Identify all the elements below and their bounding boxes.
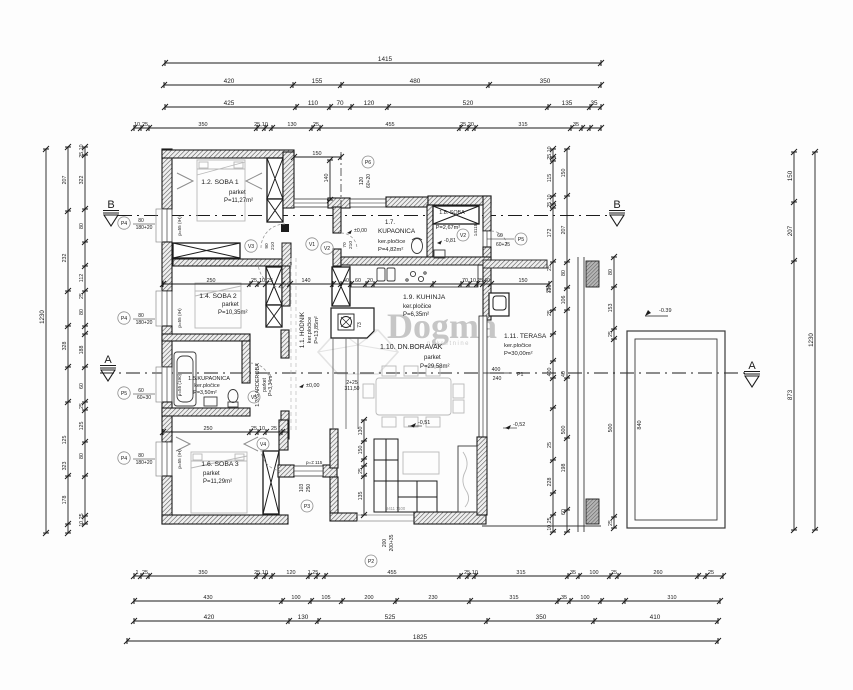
svg-text:1415: 1415 xyxy=(378,56,393,63)
svg-text:1.10. DN.BORAVAK: 1.10. DN.BORAVAK xyxy=(380,344,443,351)
svg-text:V1: V1 xyxy=(309,242,315,248)
svg-text:315: 315 xyxy=(509,595,518,601)
svg-text:1230: 1230 xyxy=(808,333,815,347)
window soba1 left xyxy=(162,209,172,242)
svg-text:25: 25 xyxy=(546,287,552,293)
room label 1.10 DN.BORAVAK xyxy=(380,344,450,370)
svg-text:40: 40 xyxy=(561,371,567,377)
svg-text:80: 80 xyxy=(138,218,144,224)
svg-text:P=29,58m²: P=29,58m² xyxy=(420,364,450,370)
wall soba3 east upper xyxy=(279,420,288,450)
svg-text:315: 315 xyxy=(516,570,525,576)
svg-text:150: 150 xyxy=(358,446,364,455)
internal dim soba3 xyxy=(160,426,288,435)
svg-text:1825: 1825 xyxy=(413,634,428,641)
wall kitchen east xyxy=(483,265,491,320)
svg-text:V4: V4 xyxy=(260,442,266,448)
svg-text:110: 110 xyxy=(308,100,319,107)
svg-text:1230: 1230 xyxy=(39,310,46,324)
dining table xyxy=(363,366,464,427)
svg-text:198: 198 xyxy=(561,464,567,473)
glass wall living east xyxy=(479,316,487,437)
svg-text:500: 500 xyxy=(561,426,567,435)
curtain chevron soba1 right xyxy=(246,173,262,189)
svg-text:240: 240 xyxy=(493,376,502,382)
svg-text:130: 130 xyxy=(298,614,309,621)
svg-text:200: 200 xyxy=(364,595,373,601)
svg-text:480: 480 xyxy=(410,78,421,85)
svg-text:420: 420 xyxy=(224,78,235,85)
svg-text:200+35: 200+35 xyxy=(389,534,395,551)
svg-text:P=11,27m²: P=11,27m² xyxy=(224,198,253,204)
svg-text:parket: parket xyxy=(203,471,220,477)
svg-text:311,50: 311,50 xyxy=(345,386,360,392)
label P1 terrace xyxy=(483,367,523,382)
svg-text:70: 70 xyxy=(342,242,348,248)
svg-text:153: 153 xyxy=(608,304,614,313)
svg-text:parket: parket xyxy=(424,355,441,361)
svg-text:A: A xyxy=(104,354,112,366)
svg-text:±0,00: ±0,00 xyxy=(354,228,367,234)
svg-text:25: 25 xyxy=(142,122,148,128)
sink kupaonica 1.5 xyxy=(204,397,217,406)
outer wall top room18 xyxy=(428,196,491,205)
dim chain x614 pool xyxy=(608,254,617,531)
level mark hodnik top xyxy=(347,228,367,234)
svg-text:ker.pločice: ker.pločice xyxy=(307,317,313,343)
svg-text:25: 25 xyxy=(608,520,614,526)
wall top mid pier xyxy=(328,198,350,208)
svg-text:40: 40 xyxy=(343,278,349,284)
door arc kupaonica 1.5 xyxy=(250,363,270,383)
svg-text:210: 210 xyxy=(348,241,354,249)
svg-text:112: 112 xyxy=(79,274,85,282)
level mark hodnik xyxy=(299,383,319,389)
wall corridor east upper xyxy=(330,429,338,468)
svg-text:25: 25 xyxy=(611,570,617,576)
svg-text:25,10: 25,10 xyxy=(464,570,478,576)
door circle V2 right xyxy=(457,229,469,241)
wall pier kitchen west xyxy=(332,267,350,306)
curtain chevron soba1 left xyxy=(177,173,193,189)
svg-text:525: 525 xyxy=(385,614,396,621)
room label 1.8 xyxy=(436,210,465,231)
svg-text:p=55 (IH): p=55 (IH) xyxy=(177,216,182,236)
bathtub kupaonica 1.5 xyxy=(174,352,196,406)
svg-text:25: 25 xyxy=(547,310,553,316)
dim 140 vertical xyxy=(324,157,333,203)
svg-text:70: 70 xyxy=(462,278,468,284)
svg-text:178: 178 xyxy=(62,496,68,505)
svg-text:25,10: 25,10 xyxy=(254,122,268,128)
svg-text:25: 25 xyxy=(251,278,257,284)
svg-text:1.7.: 1.7. xyxy=(385,220,395,226)
door label P2 entrance xyxy=(365,534,395,567)
wall 1.8 east lower xyxy=(483,247,491,260)
svg-text:10: 10 xyxy=(259,278,265,284)
svg-text:135: 135 xyxy=(358,492,364,501)
wall 1.8 east upper xyxy=(483,196,491,231)
svg-text:60: 60 xyxy=(497,233,503,239)
svg-text:60+30: 60+30 xyxy=(137,395,151,401)
svg-text:25: 25 xyxy=(708,570,714,576)
svg-text:250: 250 xyxy=(204,426,213,432)
svg-text:1.1. HODNIK: 1.1. HODNIK xyxy=(299,311,306,348)
wall garderoba east upper xyxy=(281,330,289,358)
wall between 1.7 and 1.8 xyxy=(427,205,433,257)
door label P3 xyxy=(299,484,313,512)
dim chain x576 xyxy=(561,146,570,535)
curtain chevron soba3 right xyxy=(244,437,258,451)
outer wall left seg1 xyxy=(162,149,172,209)
svg-text:P=30,00m²: P=30,00m² xyxy=(504,351,533,357)
svg-text:parket: parket xyxy=(229,190,246,196)
left window label P4 2 xyxy=(118,312,155,326)
svg-text:80: 80 xyxy=(138,453,144,459)
door circle V4 xyxy=(257,438,269,450)
svg-text:172: 172 xyxy=(547,229,553,238)
svg-text:1.2. SOBA 1: 1.2. SOBA 1 xyxy=(201,179,239,186)
svg-text:10: 10 xyxy=(259,426,265,432)
svg-text:188: 188 xyxy=(79,346,85,355)
svg-text:60: 60 xyxy=(561,509,567,515)
section marker B left xyxy=(103,199,119,226)
door circle V5 xyxy=(248,391,260,403)
wall top right seg xyxy=(386,197,428,207)
svg-text:250: 250 xyxy=(207,278,216,284)
svg-text:P=3,50m²: P=3,50m² xyxy=(193,390,217,396)
wall south of 1.7 1.8 xyxy=(341,257,491,265)
wall south entrance xyxy=(330,513,357,521)
svg-text:25: 25 xyxy=(79,403,85,409)
svg-text:14118: 14118 xyxy=(473,223,478,236)
svg-text:P4: P4 xyxy=(121,316,127,322)
internal dim line main xyxy=(160,278,552,287)
svg-text:±0,00: ±0,00 xyxy=(306,383,319,389)
window soba3 left xyxy=(162,442,172,476)
room label 1.9 KUHINJA xyxy=(403,294,446,318)
dim 150 window axis xyxy=(291,151,344,160)
svg-text:60+20: 60+20 xyxy=(366,174,372,188)
svg-text:230: 230 xyxy=(428,595,437,601)
svg-text:350: 350 xyxy=(536,614,547,621)
wall pier soba2 east lower xyxy=(266,305,282,327)
svg-text:155: 155 xyxy=(312,78,323,85)
svg-text:9411 1100: 9411 1100 xyxy=(386,506,406,511)
svg-text:25: 25 xyxy=(79,293,85,299)
svg-text:315: 315 xyxy=(518,122,527,128)
svg-text:125: 125 xyxy=(79,422,85,431)
right dim chain 873 xyxy=(787,149,797,533)
window sill projection 1 xyxy=(156,209,162,242)
outer wall left seg3 xyxy=(162,326,172,367)
svg-text:80: 80 xyxy=(79,223,85,229)
wc kupaonica 1.7 xyxy=(412,238,423,254)
svg-text:125: 125 xyxy=(62,436,68,445)
svg-text:105: 105 xyxy=(321,595,330,601)
wall pier soba1 east lower xyxy=(267,199,283,222)
axis line window xyxy=(340,152,342,207)
svg-text:25: 25 xyxy=(477,278,483,284)
svg-text:1: 1 xyxy=(135,570,138,576)
door vetrobran xyxy=(294,466,323,476)
svg-text:35: 35 xyxy=(561,595,567,601)
svg-text:P=4,82m²: P=4,82m² xyxy=(378,247,403,253)
pool outer rectangle xyxy=(627,331,725,528)
window sill projection 4 xyxy=(156,442,162,476)
room label 1.3 rotated xyxy=(255,363,274,407)
door post soba1 xyxy=(281,224,289,232)
svg-text:A: A xyxy=(748,360,756,372)
curtain chevron soba3 left xyxy=(176,437,190,451)
svg-text:207: 207 xyxy=(787,225,794,236)
outer wall top soba1 xyxy=(162,150,294,158)
svg-text:1.9. KUHINJA: 1.9. KUHINJA xyxy=(403,294,446,301)
svg-text:35: 35 xyxy=(573,122,579,128)
svg-text:10: 10 xyxy=(134,122,140,128)
top dim row 4 xyxy=(131,122,604,131)
svg-text:425: 425 xyxy=(224,100,235,107)
closet band soba1 xyxy=(173,243,240,258)
svg-text:35: 35 xyxy=(590,100,598,107)
section line B-B xyxy=(118,215,608,217)
svg-text:60+25: 60+25 xyxy=(496,242,510,248)
door circle V1 xyxy=(306,238,318,250)
svg-text:210: 210 xyxy=(270,242,276,250)
left dim total 1230 xyxy=(39,146,49,536)
svg-text:parket: parket xyxy=(222,302,239,308)
svg-text:35: 35 xyxy=(570,570,576,576)
wall 1.7 west upper xyxy=(333,207,341,233)
svg-text:20: 20 xyxy=(367,278,373,284)
door arc soba1 xyxy=(261,224,285,248)
svg-text:150: 150 xyxy=(787,170,794,181)
wall kupaonica15 south xyxy=(162,408,250,416)
svg-text:25: 25 xyxy=(267,278,273,284)
svg-text:V5: V5 xyxy=(251,395,257,401)
svg-text:1,25: 1,25 xyxy=(308,570,319,576)
svg-text:250: 250 xyxy=(306,484,312,493)
wall kupaonica15 north xyxy=(162,334,250,341)
left window label P4 4 xyxy=(118,452,155,466)
svg-text:322: 322 xyxy=(79,176,85,185)
svg-text:P5: P5 xyxy=(518,237,525,243)
svg-text:455: 455 xyxy=(385,122,394,128)
svg-text:260: 260 xyxy=(653,570,662,576)
wall 1.7 west lower xyxy=(333,249,341,266)
window sill projection 2 xyxy=(156,291,162,326)
pier terrace south xyxy=(586,499,599,524)
svg-text:25: 25 xyxy=(608,331,614,337)
svg-text:90: 90 xyxy=(264,243,270,249)
svg-text:70: 70 xyxy=(336,100,344,107)
door arc room 1.8 xyxy=(491,231,507,247)
svg-text:150: 150 xyxy=(561,169,567,178)
svg-text:10,25: 10,25 xyxy=(79,513,85,526)
svg-text:25: 25 xyxy=(313,122,319,128)
svg-text:V3: V3 xyxy=(248,244,254,250)
hodnik-living open boundary xyxy=(333,338,358,429)
terrace east edge lines xyxy=(578,257,584,532)
kitchen counter xyxy=(350,265,478,287)
terrace north bar xyxy=(483,260,547,268)
svg-text:73: 73 xyxy=(357,322,363,328)
wall pier soba1 east upper xyxy=(267,158,283,199)
door dims 1.7 rotated xyxy=(342,241,354,249)
room label 1.5 KUPAONICA xyxy=(188,376,230,396)
watermark Dogma logo xyxy=(387,306,497,347)
bed soba3 xyxy=(191,452,247,513)
outer wall soba3 south xyxy=(162,515,288,524)
svg-text:P2: P2 xyxy=(368,559,374,565)
top dim row 1 total 1415 xyxy=(162,56,604,66)
svg-text:25: 25 xyxy=(142,570,148,576)
coffee table living room xyxy=(403,452,439,474)
svg-text:-0,51: -0,51 xyxy=(418,420,430,426)
room label 1.2 SOBA 1 xyxy=(201,179,253,204)
svg-text:328: 328 xyxy=(62,342,68,351)
room label 1.1 HODNIK rotated xyxy=(299,311,320,348)
pier terrace north xyxy=(586,261,599,287)
entrance stub wall left xyxy=(278,465,294,477)
watermark gem outline xyxy=(318,330,398,374)
svg-text:P3: P3 xyxy=(304,504,310,510)
svg-text:-0,81: -0,81 xyxy=(444,238,456,244)
entrance stub wall right xyxy=(323,465,337,477)
svg-text:400: 400 xyxy=(547,368,553,377)
svg-text:180+20: 180+20 xyxy=(136,460,153,466)
svg-text:140: 140 xyxy=(324,174,330,183)
door arc soba3 xyxy=(261,449,283,471)
threshold entrance door xyxy=(357,515,414,521)
svg-text:840: 840 xyxy=(637,420,643,429)
outer wall left seg2 xyxy=(162,242,172,291)
svg-text:120: 120 xyxy=(364,100,375,107)
svg-text:1.6. SOBA 3: 1.6. SOBA 3 xyxy=(201,461,239,468)
svg-text:135: 135 xyxy=(562,100,573,107)
svg-text:25: 25 xyxy=(358,468,364,474)
boiler cabinet kitchen xyxy=(331,308,374,338)
room label 1.6 SOBA 3 xyxy=(201,461,239,485)
svg-text:25,10: 25,10 xyxy=(254,570,268,576)
window kuhinja north xyxy=(350,199,386,207)
section line A-A xyxy=(100,372,746,374)
svg-text:150: 150 xyxy=(312,151,321,157)
svg-text:106: 106 xyxy=(561,296,567,305)
door circle V2 xyxy=(321,242,333,254)
svg-text:P=3,34m²: P=3,34m² xyxy=(268,374,274,396)
bottom dim row 4 total 1825 xyxy=(124,634,721,644)
door dim 1.8 east xyxy=(487,233,514,248)
outer wall left seg5 xyxy=(162,476,172,524)
level mark terrace -0.52 xyxy=(503,422,525,430)
svg-text:P=10,35m²: P=10,35m² xyxy=(218,310,248,316)
svg-text:103: 103 xyxy=(299,484,305,493)
svg-text:P=6,35m²: P=6,35m² xyxy=(403,312,429,318)
pool inner rectangle xyxy=(635,339,717,520)
svg-text:60: 60 xyxy=(138,388,144,394)
svg-text:350: 350 xyxy=(198,570,207,576)
svg-text:80: 80 xyxy=(79,309,85,315)
section marker A right xyxy=(744,360,760,387)
svg-text:60: 60 xyxy=(79,383,85,389)
svg-text:KUPAONICA: KUPAONICA xyxy=(378,228,416,235)
room label 1.7 KUPAONICA xyxy=(378,220,416,253)
pool level mark -0.39 xyxy=(645,308,672,316)
svg-text:150: 150 xyxy=(519,278,528,284)
svg-text:115: 115 xyxy=(547,174,553,182)
svg-text:V2: V2 xyxy=(460,233,466,239)
svg-text:ker.pločice: ker.pločice xyxy=(504,343,531,349)
left dim chain outer xyxy=(62,144,71,536)
door circle V3 xyxy=(245,240,257,252)
svg-text:-0,52: -0,52 xyxy=(513,422,525,428)
svg-text:140: 140 xyxy=(302,278,311,284)
svg-text:1.5.KUPAONICA: 1.5.KUPAONICA xyxy=(188,376,230,382)
dim chain x560 xyxy=(547,146,556,535)
svg-text:350: 350 xyxy=(198,122,207,128)
svg-text:400: 400 xyxy=(492,367,501,373)
top dim row 3 xyxy=(162,100,604,110)
bottom dim row 3 xyxy=(131,614,721,624)
svg-text:25,10: 25,10 xyxy=(547,146,553,159)
room label 1.11 TERASA xyxy=(504,333,547,357)
bottom dim row 1 xyxy=(131,570,726,579)
window label P6 xyxy=(359,156,374,188)
wall soba2 east edge xyxy=(282,266,290,306)
svg-text:25,10: 25,10 xyxy=(547,194,553,207)
svg-text:P4: P4 xyxy=(121,221,127,227)
hodnik dashed guide lines xyxy=(291,258,296,430)
svg-text:-0.39: -0.39 xyxy=(659,308,672,314)
outer wall living south xyxy=(414,512,486,524)
svg-text:25,20: 25,20 xyxy=(460,122,474,128)
svg-text:1.4. SOBA 2: 1.4. SOBA 2 xyxy=(199,293,237,300)
svg-text:520: 520 xyxy=(463,100,474,107)
svg-text:80: 80 xyxy=(561,270,567,276)
svg-text:350: 350 xyxy=(540,78,551,85)
svg-text:p=55 (IH): p=55 (IH) xyxy=(177,449,182,469)
beam label xyxy=(345,380,360,392)
door arc kupaonica 1.7 xyxy=(341,233,357,249)
wall garderoba east lower xyxy=(281,411,289,439)
internal vdim living xyxy=(358,417,367,518)
wall pier soba2 east upper xyxy=(266,267,282,305)
svg-text:310: 310 xyxy=(667,595,676,601)
svg-text:180+20: 180+20 xyxy=(136,225,153,231)
terrace floor edge line xyxy=(483,283,549,285)
closet room 1.8 xyxy=(433,206,479,224)
wall corridor east lower xyxy=(330,477,338,513)
door arc soba2 xyxy=(258,262,284,288)
svg-text:p=55 (IH): p=55 (IH) xyxy=(177,308,182,328)
wall kupaonica15 east xyxy=(242,341,250,383)
svg-text:207: 207 xyxy=(62,176,68,185)
svg-text:130: 130 xyxy=(287,122,296,128)
svg-text:P5: P5 xyxy=(121,391,127,397)
svg-text:P1: P1 xyxy=(517,372,523,378)
room label 1.4 SOBA 2 xyxy=(199,293,247,316)
wc kupaonica 1.5 xyxy=(228,390,238,408)
window kupaonica left xyxy=(162,367,172,402)
svg-text:P=2,67m²: P=2,67m² xyxy=(436,225,461,231)
svg-text:323: 323 xyxy=(62,462,68,471)
svg-text:500: 500 xyxy=(608,424,614,433)
label P5 xyxy=(515,233,527,245)
svg-text:60: 60 xyxy=(355,278,361,284)
bottom dim row 2 xyxy=(131,595,723,604)
svg-text:V2: V2 xyxy=(324,246,330,252)
